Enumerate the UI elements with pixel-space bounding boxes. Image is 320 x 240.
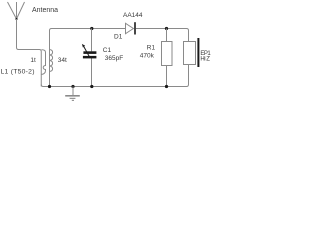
- wire: bottom rail: [41, 85, 186, 87]
- node: C1 top junction: [90, 27, 93, 30]
- wire: EP1 bottom lead: [187, 65, 189, 87]
- inductor L1 secondary (34 turns): [49, 30, 51, 87]
- earphone EP1 body: [184, 42, 196, 65]
- wire: R1 top lead: [166, 29, 168, 42]
- svg-text:Hi Z: Hi Z: [200, 57, 210, 63]
- svg-text:AA144: AA144: [123, 12, 143, 19]
- svg-text:1t: 1t: [30, 57, 36, 64]
- wire: C1 bottom lead: [91, 58, 93, 87]
- node: secondary bottom junction: [48, 85, 51, 88]
- antenna apex node: [15, 18, 17, 20]
- wire: top rail left segment: [50, 29, 126, 32]
- wire: antenna mast down and right to primary: [17, 19, 42, 87]
- diode D1: [126, 23, 134, 33]
- antenna: [8, 2, 25, 19]
- svg-text:Antenna: Antenna: [32, 7, 58, 14]
- node: ground junction: [71, 85, 74, 88]
- svg-text:L1 (T50-2): L1 (T50-2): [1, 69, 35, 76]
- svg-text:365pF: 365pF: [105, 55, 123, 62]
- svg-text:470k: 470k: [140, 53, 155, 60]
- ground: [65, 87, 80, 101]
- wire: R1 bottom lead: [166, 66, 168, 87]
- earphone EP1 element bar: [197, 38, 199, 67]
- node: R1 bottom junction: [165, 85, 168, 88]
- svg-text:C1: C1: [103, 47, 112, 54]
- svg-text:D1: D1: [114, 34, 123, 41]
- wire: C1 top lead: [91, 29, 93, 52]
- svg-text:R1: R1: [147, 45, 156, 52]
- svg-text:34t: 34t: [58, 57, 67, 64]
- wire: top rail right segment: [136, 29, 189, 42]
- inductor L1 primary (1 turn loop): [41, 50, 46, 75]
- C1 variable arrow: [84, 47, 90, 58]
- resistor R1 body: [162, 42, 173, 66]
- capacitor C1 (variable) plates: [83, 51, 96, 54]
- node: R1 top junction: [165, 27, 168, 30]
- node: C1 bottom junction: [90, 85, 93, 88]
